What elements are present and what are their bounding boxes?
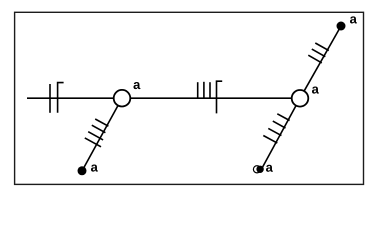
tick 1 on edge v2-d3 xyxy=(277,114,289,121)
edge: node v1 to leaf dot d1 (lower-left diagonal) xyxy=(82,98,122,171)
tick 1 (short) on middle edge xyxy=(197,82,199,99)
leaf dot d2 (filled, top right) xyxy=(337,22,346,31)
tick 1 on left half-edge xyxy=(49,84,51,113)
leaf d3 filled dot part xyxy=(256,166,263,173)
tick 1 on edge v2-d2 xyxy=(308,55,322,63)
leaf dot d1 (filled) xyxy=(78,166,87,175)
tick 4 on edge v1-d1 xyxy=(85,138,101,147)
tick 2 on edge v1-d1 xyxy=(92,125,106,133)
node v2 (open circle) xyxy=(292,90,309,107)
tick 3 on edge v2-d2 xyxy=(315,43,329,51)
tick 3 on edge v1-d1 xyxy=(88,132,103,140)
tick 3 (short) on middle edge xyxy=(209,82,211,99)
edge: node v2 to leaf dot d2 (upper-right diagonal) xyxy=(300,26,341,98)
wire: main horizontal edge from free end through node v1 to node v2 xyxy=(27,97,292,99)
label a of leaf d3 xyxy=(266,165,273,172)
edge: node v2 to leaf d3 (lower-left diagonal) xyxy=(261,98,300,170)
tick 4 on edge v2-d3 xyxy=(263,136,277,144)
label a of dot d1 xyxy=(91,165,98,172)
tick 4 (tall, hooked) on middle edge xyxy=(217,81,223,113)
leaf d3 open circle part xyxy=(253,166,260,173)
tick 2 on edge v2-d3 xyxy=(273,121,286,128)
label a of node v2 xyxy=(312,87,319,94)
tick 3 on edge v2-d3 xyxy=(268,128,281,135)
tick 2 (hooked) on left half-edge xyxy=(58,83,64,113)
label a of dot d2 xyxy=(350,16,357,23)
label a of node v1 xyxy=(133,82,140,89)
tick 2 (short) on middle edge xyxy=(203,82,205,99)
node v1 (open circle) xyxy=(114,90,131,107)
tick 2 on edge v2-d2 xyxy=(312,49,326,57)
tick 1 on edge v1-d1 xyxy=(95,119,108,126)
